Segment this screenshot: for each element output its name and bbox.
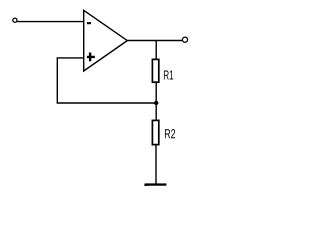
- label R1: [164, 71, 173, 80]
- wire: junction to R2 top: [155, 103, 157, 120]
- resistor R2 body: [152, 120, 158, 144]
- wire: output to R1 top: [155, 41, 157, 60]
- wire: op-amp output to output terminal: [127, 40, 182, 42]
- ground symbol: [145, 183, 167, 185]
- op-amp minus symbol: [87, 22, 91, 24]
- label R2: [165, 129, 175, 138]
- output terminal (right circle): [182, 37, 187, 42]
- wire: R2 bottom to ground: [155, 146, 157, 184]
- input terminal (left circle): [13, 18, 17, 22]
- op-amp U1 triangle: [84, 10, 128, 71]
- resistor R1 body: [152, 59, 158, 82]
- wire: R1 bottom to junction: [155, 83, 157, 103]
- junction node (R1/R2/feedback): [154, 101, 158, 105]
- op-amp plus symbol: [87, 53, 95, 62]
- wire: input terminal to op-amp inverting input: [17, 21, 84, 23]
- wire: feedback node to op-amp non-inverting input (left, down, right to junction): [57, 58, 156, 103]
